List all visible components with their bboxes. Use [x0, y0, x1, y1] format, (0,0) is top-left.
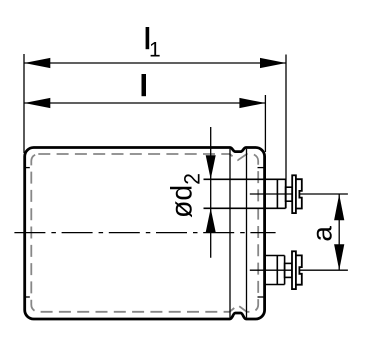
crimp groove line left — [229, 149, 231, 318]
terminal T1 shaft bottom line + od2 extension — [204, 207, 286, 209]
terminal T2 shaft end — [284, 256, 286, 285]
dimension l1 extension line left — [23, 54, 25, 153]
dashed inner outline — [31, 154, 258, 312]
terminal T2 shaft bottom line — [264, 284, 285, 286]
dimension l arrow right — [239, 98, 265, 108]
dimension a arrow down — [334, 244, 344, 270]
terminal T1 centerline / a extension line upper — [250, 193, 348, 195]
dimension od2 arrow down — [206, 155, 216, 179]
terminal T2 flange — [292, 251, 296, 289]
dimension l1 arrow left — [24, 58, 50, 68]
main axis centerline dash-dot — [14, 232, 275, 234]
terminal T1 neck — [286, 187, 293, 201]
terminal T1 shaft division — [276, 179, 278, 208]
dimension od2 line — [210, 127, 212, 258]
seam tick bottom right — [258, 296, 265, 298]
terminal T1 screw head with slot — [296, 179, 302, 208]
crimp groove line right — [246, 149, 248, 318]
terminal T1 flange — [292, 175, 296, 213]
terminal T2 neck — [285, 263, 292, 277]
terminal T2 screw head with slot — [296, 255, 302, 284]
terminal T2 shaft top line — [264, 255, 285, 257]
dimension l1 arrow right — [260, 58, 286, 68]
terminal T1 shaft top line + od2 extension — [204, 178, 286, 180]
svg-text:1: 1 — [149, 39, 161, 62]
dimension od2 arrow up — [206, 208, 216, 232]
terminal T2 centerline / a extension line lower — [250, 269, 348, 271]
label l — [142, 74, 147, 96]
dimension l1 extension line right — [285, 55, 287, 209]
label l1 — [146, 27, 150, 49]
dimension l line — [24, 102, 265, 104]
seam tick bottom left — [24, 296, 30, 298]
terminal T2 shaft division — [276, 256, 278, 285]
terminal T1 shaft end — [285, 179, 287, 208]
svg-text:a: a — [307, 226, 338, 242]
seam tick top right — [258, 167, 265, 169]
seam tick top left — [24, 167, 30, 169]
capacitor body outline — [25, 148, 265, 320]
dimension a arrow up — [334, 194, 344, 220]
dimension l arrow left — [24, 98, 50, 108]
dimension l extension line right — [264, 95, 266, 152]
dimension a line — [338, 194, 340, 270]
dimension l1 line — [24, 62, 286, 64]
